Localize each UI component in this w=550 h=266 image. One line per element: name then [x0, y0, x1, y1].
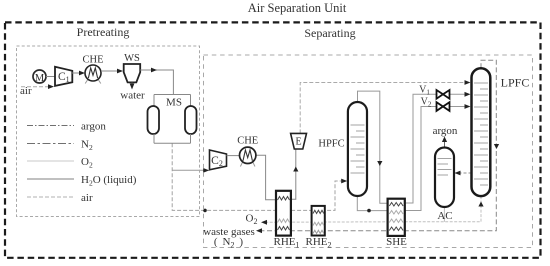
arrow waste gas down on vertical: [494, 144, 499, 149]
wire M to C1: [46, 76, 55, 78]
wire C2 to CHE2: [227, 155, 240, 157]
legend air line: [27, 196, 74, 198]
wire HPFC bottom to SHE left: [357, 196, 386, 211]
legend N2 line: [27, 143, 74, 145]
wire waste gases N2 line from LPFC top to left exit: [259, 60, 496, 230]
motor M1: [33, 70, 46, 84]
svg-text:AC: AC: [437, 210, 452, 222]
valve V1: [437, 90, 450, 99]
svg-text:HPFC: HPFC: [318, 139, 344, 150]
arrow into AC: [455, 171, 461, 176]
svg-text:MS: MS: [166, 97, 182, 109]
wire water outlet: [131, 82, 133, 86]
svg-text:( N2 ): ( N2 ): [214, 236, 244, 250]
wire HPFC top to SHE left: [358, 91, 387, 203]
legend H2O line: [27, 178, 74, 180]
exchanger RHE2: [312, 206, 325, 236]
valve V2: [437, 102, 450, 111]
arrow waste gases left exit: [256, 228, 262, 233]
compressor C2: [210, 150, 227, 170]
legend O2 line: [27, 160, 74, 162]
svg-text:argon: argon: [433, 125, 458, 137]
arrow up into LPFC bottom: [478, 202, 483, 207]
wire RHE1 top to expander E: [290, 150, 296, 200]
svg-text:WS: WS: [124, 53, 140, 64]
heat exchanger CHE1: [85, 65, 101, 84]
column LPFC: [472, 68, 491, 196]
arrow air into C1: [48, 84, 54, 89]
arrow into LPFC from V2: [465, 104, 471, 109]
wire line A air from MS down and right to HPFC: [172, 143, 345, 210]
wire branch from MS line to compressor C2: [172, 169, 207, 171]
exchanger RHE1: [276, 191, 291, 236]
vessel MS left: [148, 106, 160, 134]
svg-text:LPFC: LPFC: [501, 76, 530, 90]
svg-text:CHE: CHE: [83, 55, 104, 66]
wire SHE right to valve V1 and LPFC: [406, 94, 469, 203]
border pretreating dashed box: [17, 46, 200, 217]
wire AC bottom to O2 line: [443, 205, 445, 222]
wire air feed into C1: [21, 86, 50, 88]
wire E top to LPFC air injection: [300, 83, 468, 134]
svg-text:argon: argon: [81, 121, 106, 133]
svg-text:Separating: Separating: [304, 26, 355, 40]
svg-text:Pretreating: Pretreating: [77, 25, 130, 39]
column HPFC: [348, 102, 367, 196]
svg-text:E: E: [295, 137, 301, 148]
svg-text:air: air: [20, 85, 32, 97]
wire O2 line from LPFC bottom through SHE RHE2 RHE1 to left exit: [263, 196, 481, 222]
legend argon line: [27, 125, 74, 127]
wire SHE right to valve V2 and LPFC: [406, 107, 469, 211]
arrow water down: [130, 84, 135, 90]
node dot on HPFC bottom line: [367, 209, 371, 213]
exchanger SHE: [388, 199, 405, 236]
arrow up into E: [293, 167, 298, 172]
arrow argon up: [442, 137, 447, 143]
water separator WS: [124, 64, 141, 82]
column AC argon column: [435, 148, 454, 208]
wire WS to MS manifold: [140, 70, 190, 106]
svg-text:SHE: SHE: [386, 236, 407, 248]
arrow into WS: [117, 69, 123, 74]
wire C1 to CHE1: [72, 72, 83, 74]
svg-text:M: M: [35, 73, 45, 84]
node junction dot on line A at box boundary: [203, 209, 207, 213]
svg-text:air: air: [81, 192, 93, 204]
svg-text:CHE: CHE: [237, 136, 258, 147]
arrow down on HPFC-top line: [377, 161, 382, 166]
arrow into CHE1: [79, 71, 85, 76]
svg-text:water: water: [120, 90, 145, 102]
compressor C1: [55, 67, 72, 86]
wire MS bottom manifold: [154, 134, 191, 143]
arrow into LPFC from V1: [465, 92, 471, 97]
arrow into C2: [203, 168, 209, 173]
heat exchanger CHE2: [240, 147, 256, 166]
arrow on WS-MS wire: [151, 68, 157, 73]
wire CHE1 to WS: [101, 70, 121, 72]
wire LPFC to AC feed: [455, 172, 472, 174]
wire argon product from AC top: [444, 139, 446, 148]
border separating dashed box: [204, 55, 533, 248]
arrow O2 left exit: [261, 220, 267, 225]
arrow air into LPFC: [465, 80, 471, 85]
expander E: [291, 133, 307, 149]
vessel MS right: [185, 106, 197, 134]
wire CHE2 to RHE1: [256, 155, 275, 200]
svg-text:Air Separation Unit: Air Separation Unit: [248, 1, 347, 15]
arrow air feed into HPFC: [341, 179, 347, 184]
